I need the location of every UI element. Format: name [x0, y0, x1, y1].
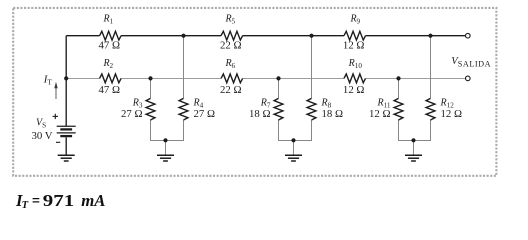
- svg-text:R5: R5: [224, 14, 235, 26]
- svg-text:VS: VS: [36, 118, 46, 130]
- svg-text:18 Ω: 18 Ω: [249, 108, 271, 120]
- svg-text:22 Ω: 22 Ω: [220, 84, 242, 96]
- svg-text:R1: R1: [102, 14, 113, 26]
- svg-text:mA: mA: [81, 191, 105, 210]
- svg-text:R6: R6: [224, 58, 235, 70]
- svg-text:T: T: [22, 200, 29, 211]
- svg-text:R2: R2: [102, 58, 113, 70]
- svg-text:22 Ω: 22 Ω: [220, 39, 242, 51]
- svg-text:12 Ω: 12 Ω: [441, 108, 463, 120]
- svg-text:R9: R9: [349, 14, 360, 26]
- svg-text:=: =: [32, 191, 40, 210]
- svg-text:18 Ω: 18 Ω: [322, 108, 344, 120]
- svg-text:12 Ω: 12 Ω: [343, 84, 365, 96]
- svg-text:47 Ω: 47 Ω: [99, 84, 121, 96]
- svg-text:R10: R10: [348, 58, 363, 70]
- svg-text:12 Ω: 12 Ω: [369, 108, 391, 120]
- svg-text:971: 971: [43, 191, 74, 210]
- svg-text:27 Ω: 27 Ω: [194, 108, 216, 120]
- svg-text:12 Ω: 12 Ω: [343, 39, 365, 51]
- svg-text:VSALIDA: VSALIDA: [451, 56, 491, 68]
- svg-text:47 Ω: 47 Ω: [99, 39, 121, 51]
- svg-text:27 Ω: 27 Ω: [121, 108, 143, 120]
- svg-text:30 V: 30 V: [32, 130, 53, 142]
- svg-text:IT: IT: [43, 74, 53, 87]
